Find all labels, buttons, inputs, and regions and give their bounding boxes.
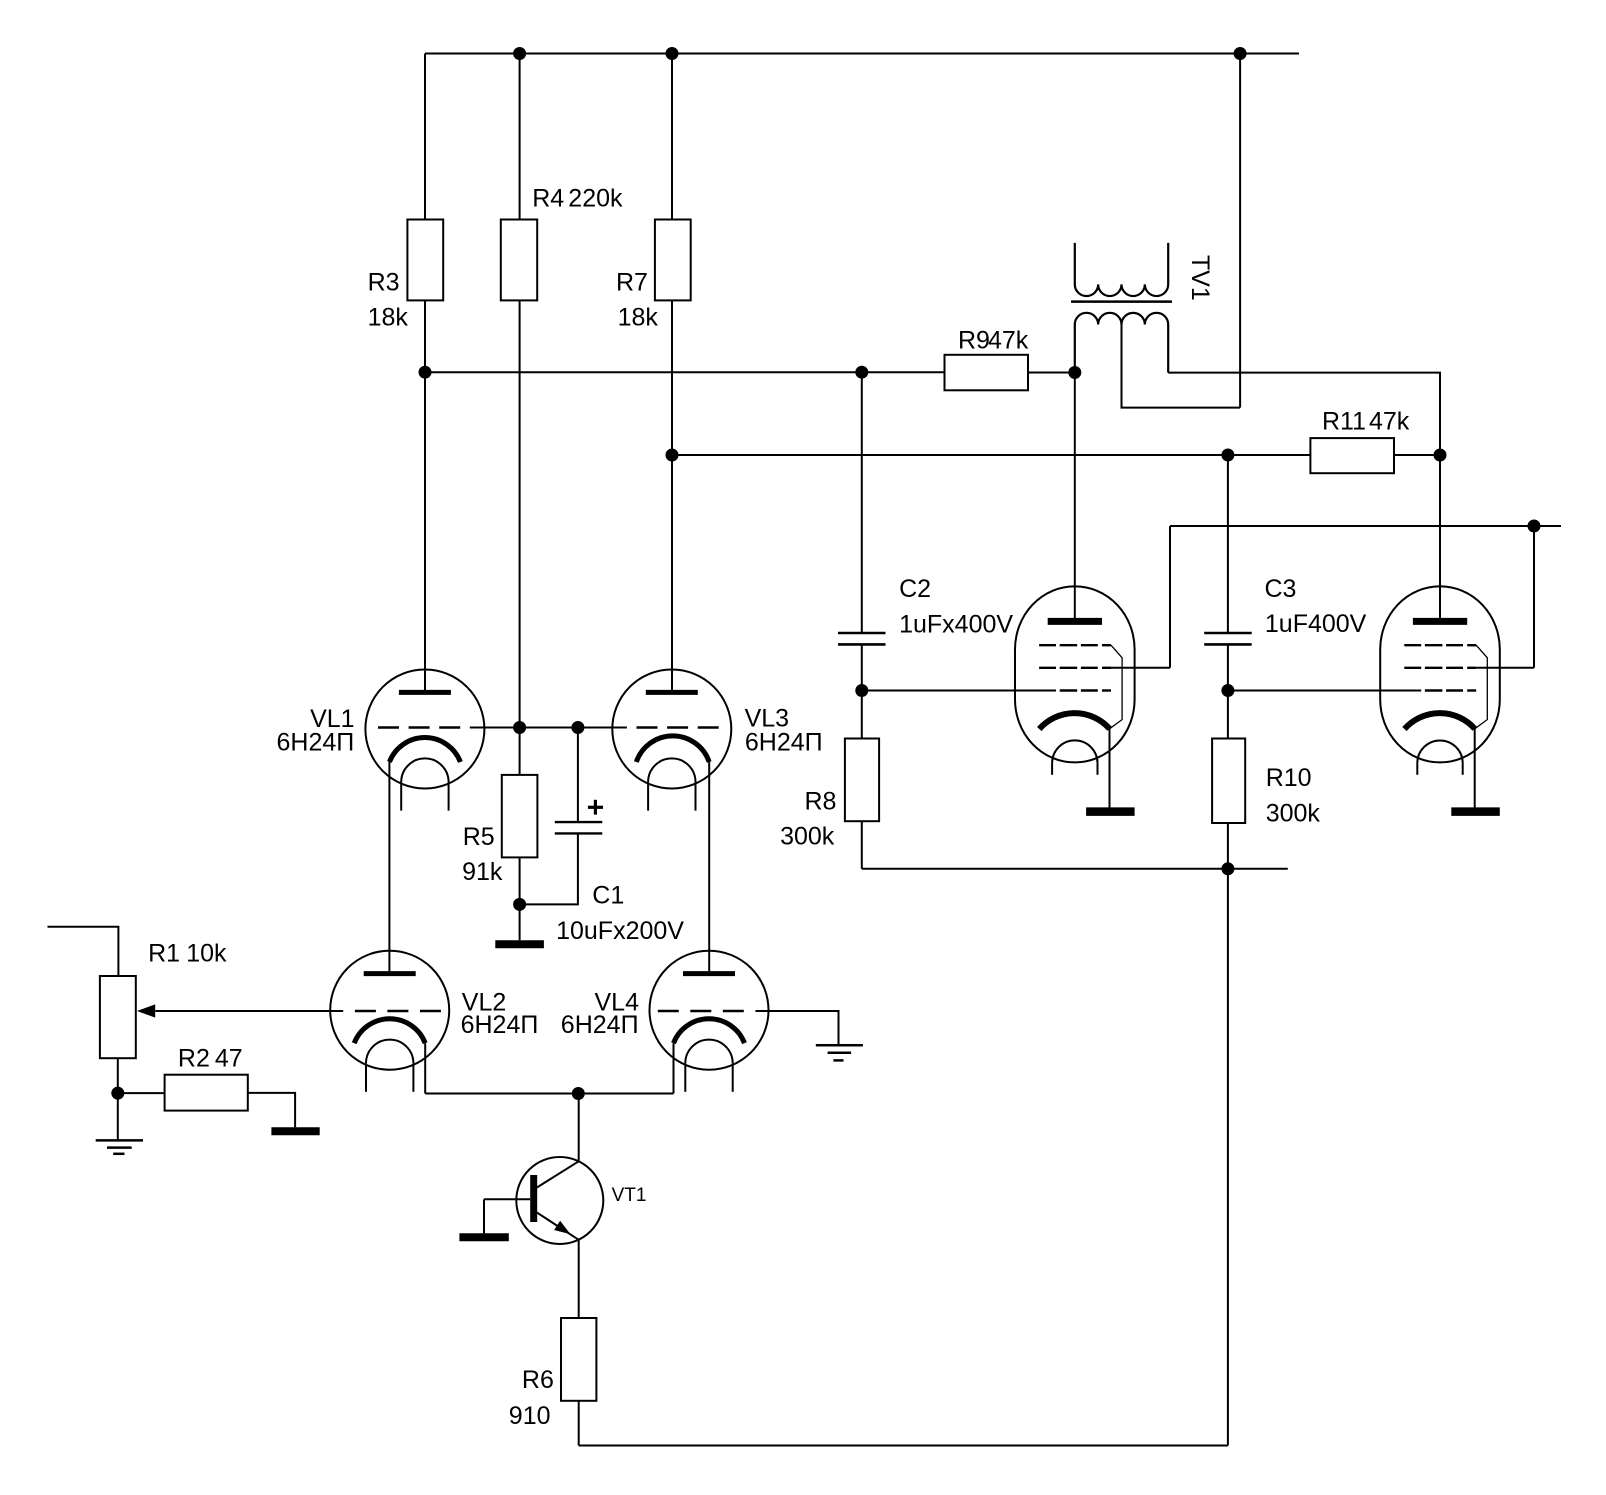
label R6 value [509, 1366, 554, 1430]
junction R9 / TV1 primary / output tube A anode [1068, 366, 1081, 379]
transformer TV1 primary winding [1075, 313, 1168, 373]
label VL1 [277, 705, 355, 757]
wire bottom return [579, 1445, 1228, 1447]
wire R3 bottom lead [424, 300, 426, 372]
label R9 value [958, 327, 1029, 355]
wire C1 bottom lead [520, 833, 578, 904]
label R4 value [532, 185, 623, 213]
svg-text:300k: 300k [1266, 799, 1321, 827]
wire R8-R10 bottom bus [862, 868, 1288, 870]
transistor VT1 collector stroke [537, 1161, 579, 1187]
VL3 anode [646, 690, 698, 695]
ground bar R2 [271, 1127, 319, 1135]
svg-text:6Н24П: 6Н24П [745, 729, 823, 757]
label R1 value [148, 940, 227, 968]
wire screen riser tube B [1533, 526, 1535, 668]
wire VT1 collector lead [578, 1094, 580, 1162]
label R11 value [1322, 408, 1410, 436]
wire VL2 cathode lead [424, 1043, 426, 1093]
output tube A cathode ground [1086, 807, 1135, 816]
svg-text:6Н24П: 6Н24П [461, 1011, 539, 1039]
VL4 anode [683, 971, 735, 976]
output tube A grid g3 dashes [1039, 644, 1111, 646]
svg-text:C1: C1 [592, 882, 624, 910]
label VL3 [745, 705, 823, 757]
svg-text:18k: 18k [618, 303, 659, 331]
wire R7 bottom lead to VL3 anode [671, 300, 673, 690]
wire input [48, 927, 119, 976]
resistor R10 [1212, 739, 1245, 824]
transistor VT1 emitter stroke [537, 1213, 579, 1240]
VL1 cathode [389, 738, 460, 762]
svg-text:1uFx400V: 1uFx400V [899, 610, 1013, 638]
wire grid bus middle [520, 727, 578, 729]
svg-text:R1: R1 [148, 940, 180, 968]
junction C3 / R10 / grid B [1221, 684, 1234, 697]
wire supply riser to TV1 tap [1239, 54, 1241, 408]
resistor R4 [501, 220, 537, 301]
resistor R7 [655, 220, 691, 301]
transistor VT1 emitter arrow [554, 1221, 570, 1234]
wire TV1 primary right to R11 [1168, 373, 1440, 455]
wire C2 top lead [861, 372, 863, 633]
output tube B cathode [1405, 713, 1475, 729]
svg-text:18k: 18k [368, 303, 409, 331]
VL2 cathode [354, 1019, 425, 1043]
svg-text:C2: C2 [899, 575, 931, 603]
wire C3 bottom lead [1227, 644, 1229, 690]
wire screen lead tube A [1111, 667, 1170, 669]
svg-text:R10: R10 [1266, 764, 1312, 792]
wire C3 top lead [1227, 455, 1229, 633]
svg-text:91k: 91k [462, 858, 503, 886]
VL3 heater [648, 758, 695, 810]
ground bar R5/C1 [495, 940, 544, 948]
label TV1 [1186, 255, 1214, 301]
svg-text:10k: 10k [186, 940, 227, 968]
label C2 value [899, 575, 1013, 638]
ground bar VT1 base [459, 1233, 508, 1241]
wire anode bus VL3 / R11 [672, 454, 1310, 456]
wire R9 right lead [1028, 372, 1075, 374]
wire R5 bottom lead [519, 857, 521, 904]
wire C1 top lead [577, 728, 579, 823]
VL2 envelope [330, 951, 449, 1070]
label R8 value [780, 788, 836, 851]
svg-text:1uF400V: 1uF400V [1265, 610, 1367, 638]
wire output tube B anode lead [1439, 455, 1441, 618]
svg-text:C3: C3 [1265, 575, 1297, 603]
wire R1 bottom lead [117, 1058, 119, 1093]
svg-text:R8: R8 [805, 788, 837, 816]
VL1 envelope [365, 670, 484, 789]
output tube A cathode [1039, 713, 1109, 729]
R1 wiper arrow [137, 1004, 155, 1017]
resistor R2 [165, 1075, 248, 1111]
label R10 value [1266, 764, 1321, 827]
capacitor C1 [555, 822, 603, 833]
junction grid bus / C1 [571, 721, 584, 734]
VL2 grid dashes [355, 1010, 441, 1012]
svg-text:6Н24П: 6Н24П [277, 729, 355, 757]
junction top rail / R7 [666, 47, 679, 60]
wire VL3 cathode to VL4 anode [708, 762, 710, 976]
junction R3 / VL1 anode [419, 366, 432, 379]
svg-text:R5: R5 [463, 823, 495, 851]
VL4 cathode [674, 1019, 745, 1043]
label VT1 [612, 1185, 647, 1206]
output tube A cathode lead [1109, 729, 1111, 808]
VL4 envelope [650, 951, 769, 1070]
junction R5 / C1 ground node [513, 898, 526, 911]
junction bus / C3 [1221, 449, 1234, 462]
svg-text:R11: R11 [1322, 408, 1366, 436]
resistor R3 [407, 220, 443, 301]
svg-text:R6: R6 [522, 1366, 554, 1394]
resistor R8 [845, 739, 879, 822]
output tube A grid g1 dashes [1060, 689, 1111, 691]
svg-text:47k: 47k [988, 327, 1029, 355]
svg-text:R2: R2 [178, 1044, 210, 1072]
wire R8 bottom lead [861, 821, 863, 869]
wire ground stem R5/C1 [519, 904, 521, 940]
svg-text:R7: R7 [616, 268, 648, 296]
wire VL1 cathode to VL2 anode [388, 762, 390, 976]
wire R3 top lead [424, 54, 426, 220]
svg-text:47k: 47k [1369, 408, 1410, 436]
output tube B g3-cathode internal link [1475, 645, 1488, 729]
earth ground R1 [96, 1140, 143, 1153]
transformer TV1 core [1071, 300, 1172, 303]
label R7 value [616, 268, 658, 331]
capacitor C1 polarity mark [588, 800, 603, 815]
potentiometer R1 [100, 976, 136, 1058]
wire cathode bus VL2-VL4 [425, 1093, 673, 1095]
wire top supply rail [425, 53, 1299, 55]
wire R4 top lead [519, 54, 521, 220]
wire grid A lead [862, 690, 1056, 692]
VL3 envelope [612, 670, 731, 789]
resistor R11 [1310, 438, 1394, 473]
output tube B cathode ground [1451, 807, 1500, 816]
wire screen riser tube A [1169, 526, 1171, 668]
earth ground VL4 grid [816, 1045, 863, 1060]
label R2 value [178, 1044, 243, 1072]
junction screen bus / tube B [1528, 520, 1541, 533]
VL4 grid dashes [658, 1010, 744, 1012]
resistor R6 [561, 1318, 596, 1401]
svg-text:6Н24П: 6Н24П [561, 1011, 639, 1039]
output tube A envelope [1015, 586, 1135, 762]
svg-text:300k: 300k [780, 823, 835, 851]
junction C2 / R8 / grid A [855, 684, 868, 697]
wire VT1 base ground stem [483, 1199, 485, 1233]
output tube B heater [1417, 740, 1462, 774]
svg-text:R9: R9 [958, 327, 990, 355]
capacitor C3 [1204, 633, 1252, 644]
junction grid bus / R5 [513, 721, 526, 734]
wire VL4 grid to earth [756, 1011, 839, 1045]
transistor VT1 envelope [516, 1157, 603, 1244]
output tube B cathode lead [1474, 729, 1476, 808]
VL3 cathode [636, 736, 709, 762]
wire VL3 grid lead [578, 727, 627, 729]
wire VT1 base lead [484, 1198, 530, 1200]
output tube B grid g2 dashes [1404, 667, 1476, 669]
output tube B envelope [1380, 586, 1500, 762]
wire long return to R6 [1227, 869, 1229, 1446]
resistor R9 [945, 355, 1029, 391]
junction R1 / R2 [111, 1087, 124, 1100]
wire R10 bottom lead [1227, 823, 1229, 869]
wire grid B lead [1228, 690, 1421, 692]
svg-text:VT1: VT1 [612, 1185, 647, 1206]
junction bus / C2 [855, 366, 868, 379]
svg-text:TV1: TV1 [1186, 255, 1214, 301]
wire output tube A anode lead [1074, 373, 1076, 619]
output tube A grid g2 dashes [1039, 667, 1111, 669]
wire screen bus [1170, 525, 1561, 527]
output tube A g3-cathode internal link [1110, 645, 1123, 729]
wire R2 left lead [118, 1092, 165, 1094]
wire wiper to VL2 grid [155, 1010, 343, 1012]
output tube A heater [1052, 740, 1097, 774]
label VL4 [561, 989, 639, 1039]
wire R7 top lead [671, 54, 673, 220]
wire VL1 grid lead [470, 727, 520, 729]
wire R6 bottom lead [578, 1401, 580, 1446]
wire R4 bottom lead [519, 300, 521, 727]
VL2 anode [364, 971, 416, 976]
label C3 value [1265, 575, 1367, 638]
junction top rail / TV1 tap riser [1234, 47, 1247, 60]
wire TV1 centre tap [1122, 325, 1241, 408]
VL1 anode [399, 690, 451, 695]
wire R11 right lead [1394, 454, 1440, 456]
output tube B grid g3 dashes [1404, 644, 1476, 646]
VL3 grid dashes [637, 726, 719, 728]
svg-text:R3: R3 [368, 268, 400, 296]
wire C2 bottom lead [861, 644, 863, 690]
junction R11 / TV1 / output tube B anode [1434, 449, 1447, 462]
junction top rail / R4 [513, 47, 526, 60]
junction cathode bus / VT1 collector [572, 1087, 585, 1100]
wire anode bus VL1 [425, 371, 945, 373]
svg-text:220k: 220k [568, 185, 623, 213]
wire VT1 emitter lead [578, 1240, 580, 1318]
wire earth stem R1 [117, 1093, 119, 1140]
wire R5 top lead [519, 728, 521, 775]
output tube B grid g1 dashes [1425, 689, 1476, 691]
transistor VT1 base bar [530, 1175, 537, 1222]
svg-text:10uFx200V: 10uFx200V [556, 917, 684, 945]
capacitor C2 [838, 633, 886, 644]
VL1 grid dashes [378, 726, 460, 728]
wire screen lead tube B [1476, 667, 1534, 669]
wire R8 top lead [861, 691, 863, 739]
label R5 value [462, 823, 503, 886]
wire VL1 anode lead [424, 372, 426, 692]
VL2 heater [366, 1040, 413, 1092]
label C1 value [556, 882, 684, 945]
label VL2 [461, 989, 539, 1039]
transformer TV1 secondary winding [1075, 243, 1168, 296]
svg-text:R4: R4 [532, 185, 564, 213]
wire VL4 cathode lead [673, 1043, 675, 1093]
wire R2 right lead [248, 1093, 295, 1127]
label R3 value [368, 268, 409, 331]
junction bottom bus / long return [1221, 862, 1234, 875]
VL4 heater [685, 1040, 732, 1092]
VL1 heater [401, 758, 448, 810]
wire R10 top lead [1227, 691, 1229, 739]
svg-text:910: 910 [509, 1402, 551, 1430]
output tube A anode [1048, 618, 1102, 625]
svg-text:47: 47 [215, 1044, 243, 1072]
output tube B anode [1413, 618, 1467, 625]
junction R7 / VL3 anode bus [666, 449, 679, 462]
resistor R5 [502, 775, 538, 858]
